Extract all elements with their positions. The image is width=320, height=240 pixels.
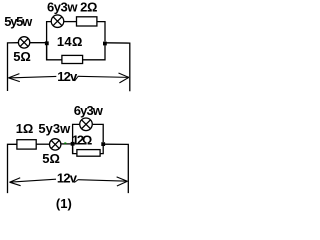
circuit 1: left wire [8,43,19,91]
lamp L1 5v5w [18,37,29,48]
wire lamp L4 to node D column [93,124,103,142]
node D junction dot [101,142,105,146]
svg-text:5Ω: 5Ω [13,49,31,64]
circuit 1: label 5Ω [13,49,31,64]
svg-text:14Ω: 14Ω [57,34,83,49]
wire resistor 1Ω to lamp L3 [36,143,50,145]
wire resistor 12Ω to node D [100,146,103,154]
wire node B to right corner [105,43,130,92]
svg-text:12Ω: 12Ω [72,132,92,147]
resistor 12Ω box [77,150,100,157]
circuit 2: label 5v3w [38,121,71,136]
circuit 1: parallel left vertical wire [47,22,52,60]
circuit 1: label 14Ω [57,34,83,49]
wire lamp L2 to resistor 2Ω [64,21,77,23]
svg-text:12v: 12v [57,69,78,84]
circuit 2: left wire [8,144,17,193]
node B junction dot [103,42,107,46]
circuit 1: 12v arrow right shaft [78,76,129,77]
circuit 2: label 12v [57,171,78,186]
circuit 2: 12v arrow right shaft [78,180,128,182]
circuit 2: 12v arrow left head [10,178,21,186]
circuit 2: label 12Ω [72,132,92,147]
circuit 2: 12v arrow left shaft [10,179,57,182]
green mark [64,142,66,144]
svg-text:1Ω: 1Ω [16,121,34,136]
wire lamp L1 to node A [30,42,47,44]
circuit 2: label 1Ω [16,121,34,136]
node C junction dot [71,142,75,146]
circuit 1: 12v arrow left shaft [8,76,56,78]
circuit 2: label 6v3w [74,103,104,118]
svg-text:(1): (1) [56,196,72,211]
resistor 2Ω box [77,17,97,26]
svg-text:6y3w 2Ω: 6y3w 2Ω [47,0,97,14]
circuit 1: label 6v3w 2Ω [47,0,97,14]
wire lamp L3 to node C [61,143,73,145]
circuit 1: 12v arrow right head [119,73,129,83]
circuit 2: bottom branch left wire [73,146,77,154]
lamp L3 5v3w [50,139,61,150]
wire resistor 2Ω to top-right corner [97,22,105,42]
wire node D to right corner [103,144,128,193]
svg-text:5Ω: 5Ω [42,151,60,166]
svg-text:6y3w: 6y3w [74,103,104,118]
resistor 1Ω box [17,140,36,149]
lamp L4 6v3w [80,118,93,131]
svg-text:5y5w: 5y5w [4,14,33,29]
svg-text:12v: 12v [57,171,78,186]
circuit 2: parallel left vertical wire [73,124,80,153]
svg-text:5y3w: 5y3w [38,121,71,136]
circuit 1: label 5v5w [4,14,33,29]
node A junction dot [45,41,49,45]
circuit 2: 12v arrow right head [117,177,128,186]
circuit 1: label 12v [57,69,78,84]
resistor 14Ω box [62,55,83,63]
circuit 1: 12v arrow left head [8,74,19,82]
wire resistor 14Ω to node B [83,45,105,60]
circuit 1: bottom branch left wire [47,45,62,60]
lamp L2 6v3w [51,15,64,28]
caption (1) [56,196,72,211]
circuit 2: label 5Ω [42,151,60,166]
